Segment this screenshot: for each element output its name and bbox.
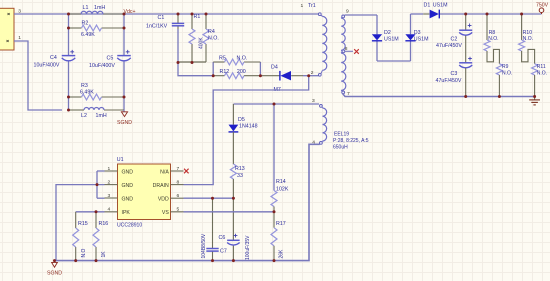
resistor R9 [496,64,502,97]
resistor R8 [484,14,499,64]
U1 pin3 stub [105,193,118,199]
svg-text:8: 8 [177,179,180,185]
svg-text:C7: C7 [220,249,227,255]
label C7 value [201,233,207,258]
svg-text:US1M: US1M [433,3,448,9]
svg-text:GND: GND [122,183,134,189]
label EEL19 specs [333,132,369,151]
svg-text:R3: R3 [81,83,88,89]
label Tr1 pin4 [312,140,315,146]
label Tr1 [308,3,316,9]
label L1 1mH [83,5,106,11]
wire GND bus [97,171,105,198]
label R5 value [219,55,247,61]
svg-text:9: 9 [346,8,349,14]
svg-text:650uH: 650uH [333,145,348,151]
svg-text:102K: 102K [276,186,289,192]
svg-text:C3: C3 [451,71,458,77]
earth ground [529,97,540,105]
svg-text:VDD: VDD [158,196,169,202]
label C1 value [146,15,168,29]
capacitor C4 [62,50,76,61]
connector J1 (AC input) [0,8,14,50]
svg-text:R4: R4 [208,29,215,35]
power SGND 1 [117,110,132,126]
transformer Tr1 secondary 9-8-7 [341,15,346,94]
svg-text:US1M: US1M [384,36,399,42]
svg-text:N.O.: N.O. [537,71,547,77]
svg-text:100uF/35V: 100uF/35V [245,235,251,260]
label Tr1 pin7 [347,91,350,97]
svg-text:1mH: 1mH [94,5,105,11]
label U1 [117,157,124,163]
svg-text:10uF/400V: 10uF/400V [34,63,60,69]
svg-text:U1: U1 [117,157,124,163]
net label Vdc+ [124,9,136,15]
svg-text:D2: D2 [384,30,391,36]
svg-text:R9: R9 [502,64,509,70]
svg-text:C6: C6 [219,235,226,241]
label R8 value [488,30,498,42]
connector pin 3 label [18,9,21,15]
wire R5R12 end bars [213,62,260,76]
wire IPK row [76,211,105,213]
svg-text:104B8/50V: 104B8/50V [201,233,207,258]
svg-text:D3: D3 [414,30,421,36]
capacitor C5 [117,50,131,61]
power port 750V [536,3,549,14]
svg-text:6.49K: 6.49K [80,89,94,95]
resistor R17 [271,212,277,261]
wire pin3 to node A [14,13,69,15]
svg-text:L2: L2 [81,113,87,119]
resistor R2 [69,25,125,31]
svg-text:D1: D1 [424,3,431,9]
svg-text:R16: R16 [99,221,109,227]
diode D5 [229,104,239,164]
label R10 value [523,30,533,42]
wire bottom row C1-R1-R4 [178,61,206,63]
svg-text:N/A: N/A [160,169,169,175]
svg-text:47uF/450V: 47uF/450V [436,43,462,49]
svg-text:GND: GND [122,169,134,175]
svg-text:2: 2 [311,70,314,76]
svg-text:SGND: SGND [117,120,132,126]
label R12 value [220,69,246,75]
U1 pin1 stub [105,166,118,172]
U1 pin6 stub [171,193,184,199]
resistor R5 [213,59,260,65]
resistor R12 [213,73,260,79]
wire D4 to Tr pin2 [303,75,319,77]
svg-text:SGND: SGND [47,271,62,277]
wire top main [69,13,319,15]
svg-text:6.49K: 6.49K [81,32,95,38]
svg-text:N.O.: N.O. [523,36,533,42]
svg-text:EEL19: EEL19 [334,132,349,138]
resistor R16 [93,212,99,261]
transformer Tr1 aux 3-4 [320,105,327,145]
resistor R13 [230,164,236,198]
label R9 value [502,64,512,76]
wire left rail x68.5 [68,14,70,110]
connector pin 1 label [18,35,21,41]
diode D3 [405,14,415,61]
svg-text:4: 4 [312,140,315,146]
power SGND 2 [47,261,62,277]
wire bottom rail [55,144,320,260]
svg-text:5: 5 [177,206,180,212]
svg-text:DRAIN: DRAIN [153,183,169,189]
svg-text:C2: C2 [451,36,458,42]
svg-text:26K: 26K [279,249,285,259]
label Tr1 pin9 [346,8,349,14]
svg-text:2: 2 [108,179,111,185]
label R2 value [81,21,95,39]
svg-text:D4: D4 [271,64,278,70]
svg-text:N.O.: N.O. [488,36,498,42]
svg-text:IPK: IPK [122,210,131,216]
wire output bottom rail [343,93,535,96]
transformer Tr1 primary 1-2 [318,13,326,76]
U1 pin names right [153,169,170,216]
label D5 value [238,117,258,129]
svg-text:6: 6 [177,193,180,199]
svg-text:VS: VS [162,210,169,216]
svg-text:N.O: N.O [81,249,87,258]
label R11 value [537,64,547,76]
label C7 [220,249,227,255]
svg-text:L1: L1 [83,5,89,11]
svg-text:P:28, 8:225, A:5: P:28, 8:225, A:5 [333,138,369,144]
capacitor C7 [206,198,218,260]
wire pin8 stub + no-connect X [345,49,359,54]
label Tr1 pin8 [345,46,348,52]
resistor R14 [271,104,277,212]
label D2 value [384,30,399,42]
svg-text:C4: C4 [50,55,57,61]
wire VS net [184,211,275,213]
wire VDD net [184,197,234,199]
wire D2-D3 bottom [377,60,411,62]
svg-text:R1: R1 [194,14,201,20]
capacitor C6 [227,198,240,260]
U1 pin8 stub [171,179,184,185]
svg-text:1K: 1K [101,251,107,258]
svg-text:R14: R14 [276,179,286,185]
svg-text:N.O.: N.O. [237,55,248,61]
U1 pin2 stub [105,179,118,185]
wire pin9 to D2 [345,14,377,16]
svg-text:4: 4 [108,206,111,212]
svg-text:US1M: US1M [414,36,429,42]
diode D1 [423,10,439,19]
capacitor C3 [459,57,472,97]
diode D4 [260,71,303,81]
label R13 value [235,166,245,179]
label R17 value 26K [279,249,285,259]
svg-text:750V: 750V [536,3,549,9]
inductor L1 [69,11,125,14]
svg-text:N.O.: N.O. [502,71,512,77]
label R15 [78,221,88,227]
label D3 value [414,30,429,42]
svg-text:R5: R5 [219,55,226,61]
label R16 [99,221,109,227]
label L2 value [81,113,107,119]
label R16 value 1K [101,251,107,258]
label D1 value [424,3,448,9]
svg-text:C5: C5 [107,56,114,62]
resistor R1 [189,14,195,62]
label R15 value N.O [81,249,87,258]
svg-text:D5: D5 [238,117,245,123]
svg-text:R11: R11 [537,64,546,70]
wire pin1 down-around [14,41,62,110]
IC U1 body [118,164,171,220]
label C6 value [245,235,251,260]
label Tr1 pin2 [311,70,314,76]
U1 pin4 stub [105,206,118,212]
resistor R3 [69,94,125,100]
svg-text:Tr1: Tr1 [308,3,316,9]
U1 pin5 stub [171,206,184,212]
svg-text:1: 1 [301,3,304,9]
svg-text:UCC28910: UCC28910 [117,223,142,229]
resistor R11 [532,64,538,97]
svg-text:7: 7 [177,166,180,172]
label C4 value [34,55,60,69]
svg-text:1nC/1KV: 1nC/1KV [146,23,168,29]
wire DRAIN net [184,76,309,185]
svg-text:R15: R15 [78,221,88,227]
svg-text:R13: R13 [235,166,245,172]
svg-text:33: 33 [237,173,243,179]
label C3 value [436,71,462,84]
wire secondary top [411,13,542,15]
U1 pin names left [122,169,134,216]
label R1 [194,14,201,20]
label D4 [271,64,278,70]
svg-text:47uF/450V: 47uF/450V [436,78,462,84]
svg-text:1N4148: 1N4148 [239,123,258,129]
label R17 [276,221,286,227]
svg-text:R12: R12 [220,69,230,75]
svg-text:3: 3 [108,193,111,199]
svg-text:10uF/400V: 10uF/400V [89,63,115,69]
svg-text:3: 3 [312,98,315,104]
label R3 value [80,83,94,95]
label R14 value [276,179,289,192]
svg-text:N.O.: N.O. [208,35,219,41]
label UCC28910 [117,223,142,229]
label M7 [274,87,281,93]
label Tr1 pin1 [301,3,304,9]
resistor R15 [73,212,79,261]
resistor R4 [203,14,209,62]
svg-text:GND: GND [122,196,134,202]
capacitor C1 [172,14,184,29]
wire GND to left rail [56,185,105,261]
label C5 value [89,56,115,70]
svg-text:1: 1 [108,166,111,172]
wire right rail x124 [123,14,125,110]
label R4 value [208,29,219,41]
wire C1 bottom [178,29,213,76]
inductor L2 [69,108,125,111]
svg-text:200: 200 [237,69,246,75]
svg-text:R17: R17 [276,221,286,227]
capacitor C2 [459,14,472,63]
label C6 [219,235,226,241]
svg-text:1mH: 1mH [96,113,107,119]
label Tr1 pin3 [312,98,315,104]
label R1 value 400K [199,37,205,49]
svg-text:C1: C1 [158,15,165,21]
svg-text:R2: R2 [82,21,89,27]
wire aux top [233,103,319,105]
diode D2 [372,15,382,61]
label C2 value [436,36,462,49]
resistor R10 [519,14,535,64]
U1 pin7 stub + no-connect X [171,166,189,174]
svg-text:1: 1 [18,35,21,41]
